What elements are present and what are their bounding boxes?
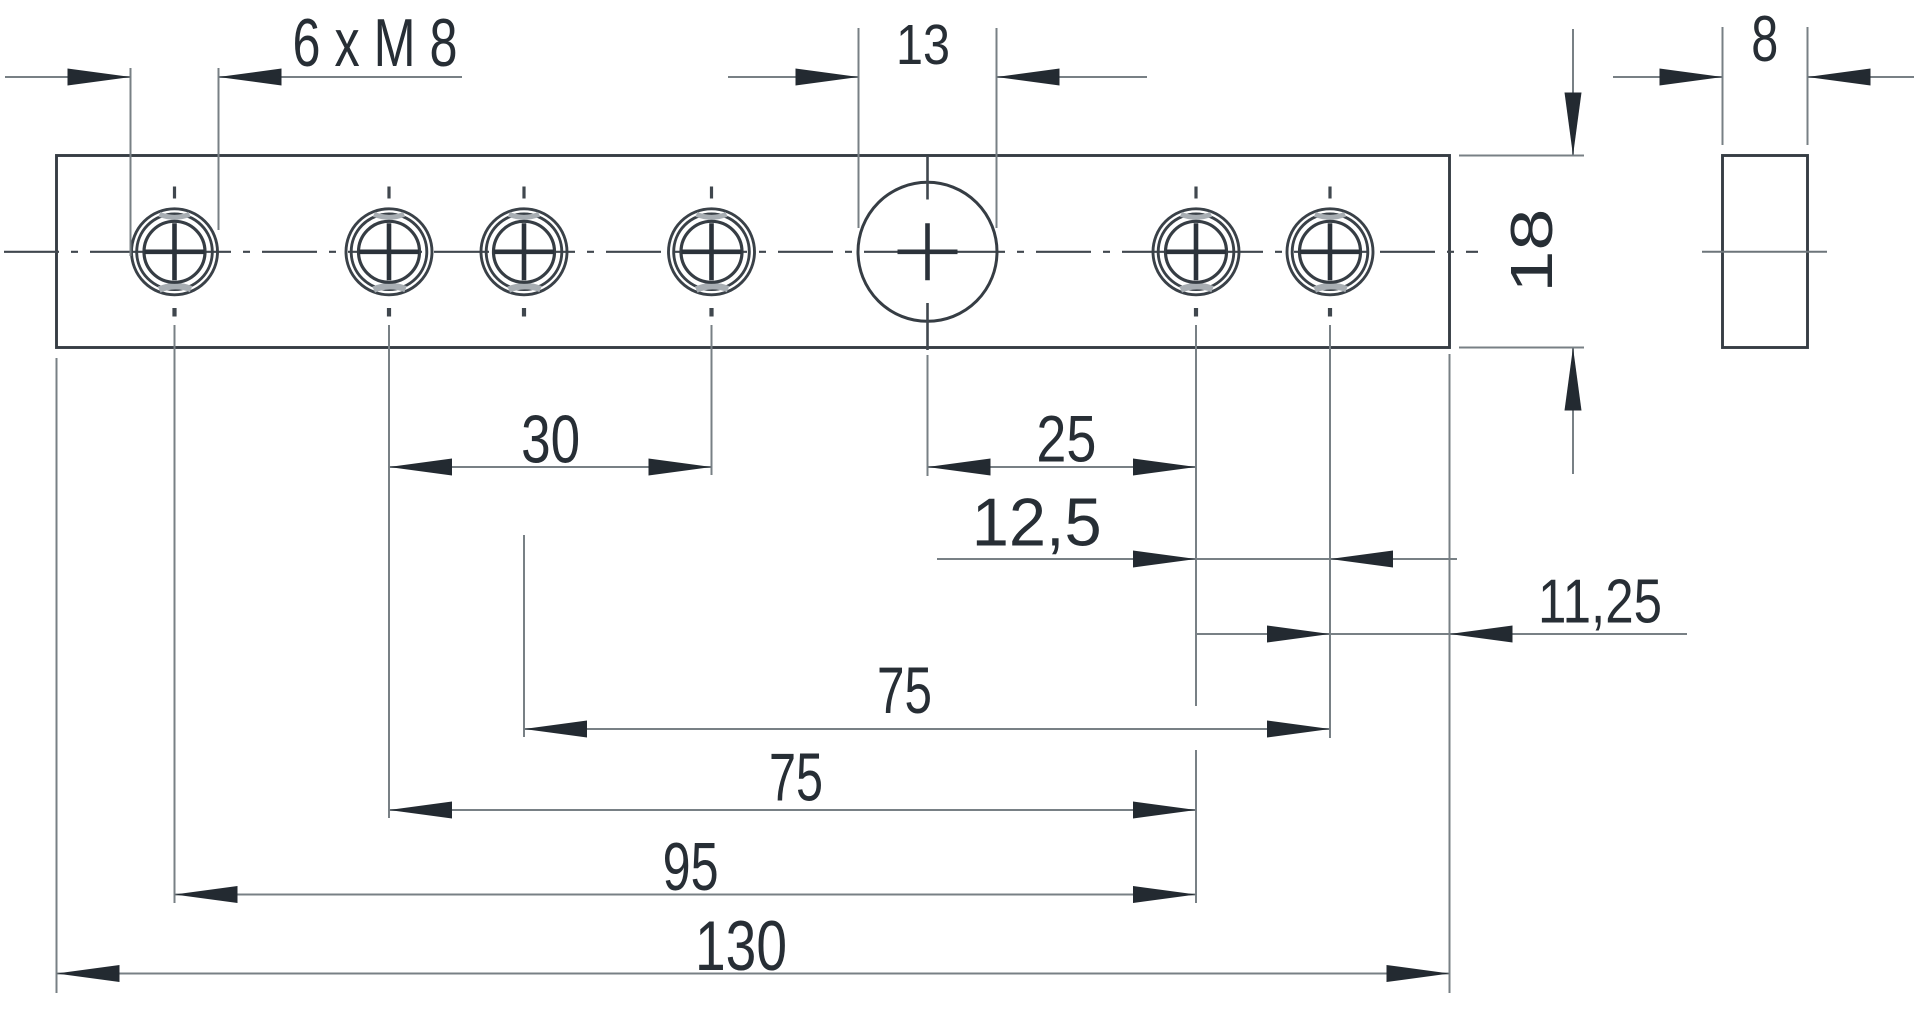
dimension 75 (hole H3 to H7) xyxy=(524,654,1330,738)
horizontal centerline through holes xyxy=(4,251,1478,253)
dimension 11,25 (hole H7 to right edge) xyxy=(1196,568,1687,643)
dimension 130 (overall length) xyxy=(57,906,1450,985)
extension line hole H5 center xyxy=(927,355,929,476)
plate front view outline xyxy=(57,156,1450,348)
dimension 6 x M 8 (top left) xyxy=(5,6,462,86)
svg-text:130: 130 xyxy=(695,906,787,985)
svg-text:25: 25 xyxy=(1036,403,1096,477)
extension line hole H3 center xyxy=(523,535,525,737)
dimension 25 (hole H5 to H6) xyxy=(928,403,1197,477)
dimension 8 (top right, side view) xyxy=(1613,2,1914,86)
extension line hole H6 center (gap at 75 dim) xyxy=(1195,325,1197,706)
extension lines for dim 18 (side) xyxy=(1459,155,1584,157)
svg-text:75: 75 xyxy=(769,741,823,816)
svg-text:8: 8 xyxy=(1751,2,1778,75)
plate side view outline (8 wide) xyxy=(1723,156,1808,348)
extension line plate left edge xyxy=(56,358,58,993)
svg-text:95: 95 xyxy=(663,830,719,905)
extension line plate right edge xyxy=(1449,354,1451,993)
extension lines for dim 13 xyxy=(858,28,860,228)
svg-text:18: 18 xyxy=(1498,209,1565,293)
svg-text:13: 13 xyxy=(896,13,950,76)
threaded hole H1 (M8) at x=174 xyxy=(132,187,218,317)
extension line hole H4 center xyxy=(711,325,713,475)
dimension 30 (hole H2 to H4) xyxy=(389,403,712,478)
dimension 75 (hole H2 to H6) xyxy=(389,741,1196,819)
threaded hole H7 (M8) at x=1330 xyxy=(1287,187,1373,317)
svg-text:30: 30 xyxy=(521,403,580,478)
svg-text:6 x M 8: 6 x M 8 xyxy=(293,6,458,81)
extension lines for dim 8 (side view) xyxy=(1722,27,1724,145)
svg-text:12,5: 12,5 xyxy=(972,486,1102,561)
extension line hole H2 center xyxy=(388,325,390,818)
plain hole H5 diameter 13 xyxy=(858,157,997,350)
side view centerline xyxy=(1702,251,1827,253)
extension line hole H1 center xyxy=(174,325,176,903)
extension line hole H7 center xyxy=(1329,325,1331,738)
extension lines for dim 6xM8 xyxy=(130,68,132,256)
svg-text:11,25: 11,25 xyxy=(1538,568,1662,637)
threaded hole H4 (M8) at x=712 xyxy=(669,187,755,317)
svg-text:75: 75 xyxy=(877,654,932,728)
threaded hole H3 (M8) at x=524 xyxy=(481,187,567,317)
threaded hole H6 (M8) at x=1196 xyxy=(1153,187,1239,317)
threaded hole H2 (M8) at x=389 xyxy=(346,187,432,317)
dimension 13 (top middle) xyxy=(728,13,1147,86)
dimension 95 (hole H1 to H6) xyxy=(175,830,1197,905)
dimension 12,5 (hole H6 to H7) xyxy=(937,486,1457,568)
dimension 18 (right, vertical) xyxy=(1498,29,1582,474)
